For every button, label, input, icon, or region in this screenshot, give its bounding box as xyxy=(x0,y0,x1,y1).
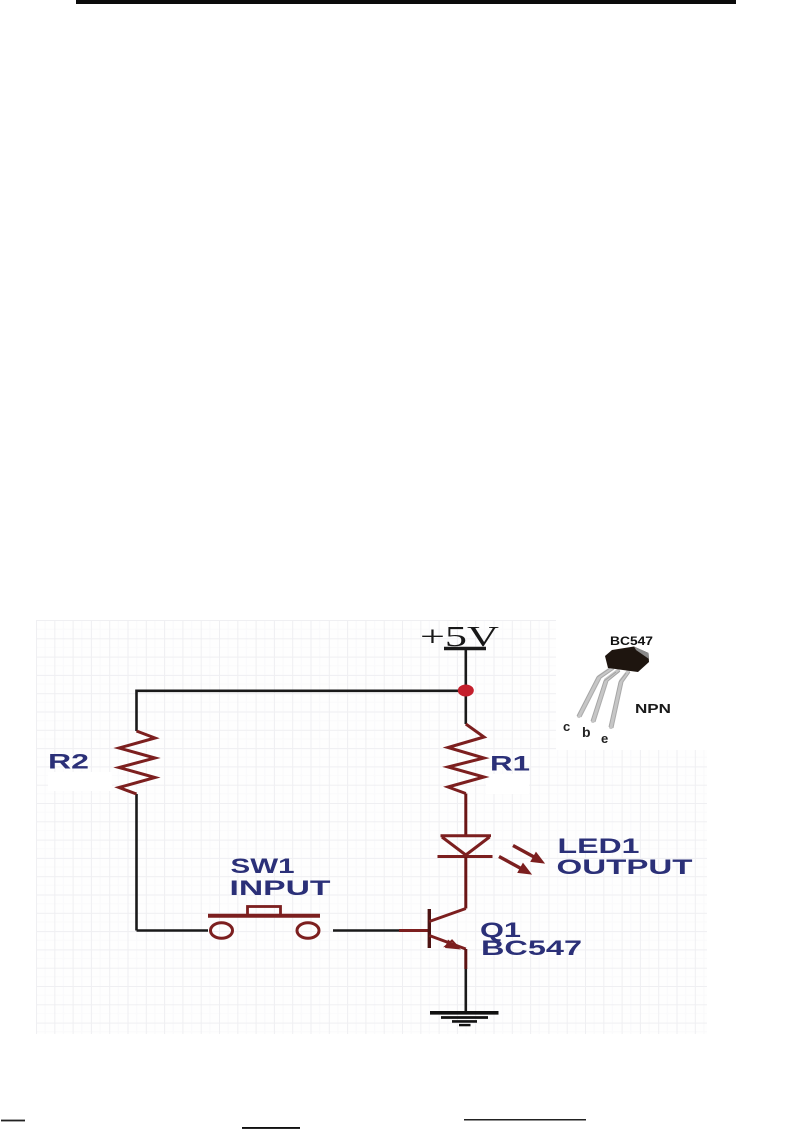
svg-text:LED1: LED1 xyxy=(558,835,640,858)
svg-text:INPUT: INPUT xyxy=(230,877,331,900)
svg-text:+5V: +5V xyxy=(420,621,499,653)
svg-text:BC547: BC547 xyxy=(481,937,582,960)
svg-text:OUTPUT: OUTPUT xyxy=(557,856,693,879)
svg-text:SW1: SW1 xyxy=(231,855,295,878)
svg-text:e: e xyxy=(601,731,608,746)
svg-text:R1: R1 xyxy=(490,753,530,776)
svg-text:c: c xyxy=(563,719,570,734)
svg-text:R2: R2 xyxy=(48,751,89,774)
svg-text:NPN: NPN xyxy=(635,701,671,716)
svg-text:BC547: BC547 xyxy=(610,634,653,648)
svg-text:b: b xyxy=(582,724,591,740)
